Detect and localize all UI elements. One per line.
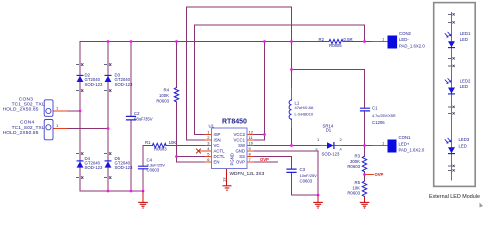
wire D1 pin leads: [320, 145, 341, 147]
svg-text:C0603: C0603: [300, 179, 313, 184]
svg-text:VCC2: VCC2: [234, 132, 246, 137]
wire CON3 net: [68, 110, 80, 112]
svg-text:R4: R4: [164, 88, 170, 93]
svg-text:PAD_1.6X2.0: PAD_1.6X2.0: [399, 44, 425, 49]
wire CON1 pin stub: [372, 145, 388, 147]
svg-text:4.7u/25V/X5R: 4.7u/25V/X5R: [372, 114, 396, 118]
wire SS to C3: [254, 157, 319, 196]
svg-text:C1206: C1206: [372, 120, 385, 125]
wire L1 pin leads: [291, 88, 293, 128]
svg-text:SOD-123: SOD-123: [115, 82, 134, 87]
svg-text:R5: R5: [355, 180, 361, 185]
wire CON2 pin stub: [372, 41, 388, 43]
wire LED module string: [451, 13, 453, 181]
wire VC compensation net (R1/C4): [143, 146, 205, 192]
wire VCC2/VCC1 supply: [254, 42, 265, 141]
pin marks D5: [104, 152, 111, 154]
svg-text:R0603: R0603: [156, 99, 169, 104]
wire CON4 pin: [53, 128, 68, 130]
LED2: [445, 78, 455, 94]
LED1: [445, 32, 455, 48]
svg-text:SS: SS: [239, 154, 245, 159]
LED3: [445, 138, 455, 154]
wire L1 column bottom: [291, 128, 293, 146]
resistor R4 body: [174, 88, 178, 103]
svg-text:C3: C3: [300, 167, 306, 172]
svg-text:L-SH8D10: L-SH8D10: [295, 112, 314, 117]
svg-text:HOLD_2X50.85: HOLD_2X50.85: [3, 130, 39, 136]
wire SW output row: [254, 145, 373, 147]
ground at R5: [360, 197, 370, 209]
svg-text:TC1_S02_TXL: TC1_S02_TXL: [12, 125, 45, 131]
resistor R2 body: [329, 39, 343, 43]
ground at C4: [138, 191, 148, 208]
svg-text:10: 10: [249, 141, 254, 146]
svg-text:LED2: LED2: [460, 79, 471, 84]
svg-text:10K: 10K: [169, 140, 177, 145]
connector CON3 symbol: [44, 100, 53, 117]
wire ISP sense loop: [195, 25, 365, 135]
ground at IC pin13: [223, 186, 232, 190]
inductor L1 coil: [289, 100, 291, 119]
diode D1: [327, 142, 334, 149]
svg-text:R0603: R0603: [347, 191, 360, 196]
svg-text:C0603: C0603: [147, 168, 160, 173]
svg-text:LED: LED: [460, 84, 468, 89]
IC right pin stubs: [247, 135, 254, 163]
svg-text:PAD_1.6X2.0: PAD_1.6X2.0: [399, 148, 425, 153]
svg-text:68uF/35V: 68uF/35V: [134, 117, 153, 122]
svg-text:R0603: R0603: [154, 147, 167, 152]
svg-text:ACTL: ACTL: [214, 149, 226, 154]
connector CON4 symbol: [44, 120, 53, 140]
svg-text:47uH/0.8A: 47uH/0.8A: [295, 105, 314, 110]
wire OVP divider column: [364, 146, 366, 182]
svg-text:LED: LED: [459, 144, 467, 149]
svg-text:External LED Module: External LED Module: [429, 194, 480, 200]
svg-text:10K: 10K: [352, 185, 360, 190]
wire C1 branch: [292, 70, 365, 146]
svg-text:12: 12: [249, 130, 254, 135]
svg-text:R3: R3: [355, 154, 361, 159]
wire input column 1 (D2/D4): [79, 42, 81, 192]
svg-text:LED3: LED3: [459, 137, 470, 142]
wire GND pin9: [254, 151, 319, 195]
wire CON4 net: [68, 128, 108, 130]
svg-text:CON1: CON1: [399, 135, 412, 140]
capacitor C2 plates: [127, 116, 136, 120]
wire CON3 pin: [53, 110, 68, 112]
op IC U1 RT8450 body: [212, 128, 248, 169]
pin marks D3: [104, 63, 111, 65]
svg-text:13: 13: [222, 177, 227, 182]
wire VIN top rail: [80, 41, 372, 43]
svg-text:CON2: CON2: [399, 31, 412, 36]
wire IC pin13 ground: [226, 169, 228, 186]
pin marks LED string: [448, 13, 455, 15]
svg-text:GND: GND: [235, 149, 245, 154]
wire OVP net alias stub: [365, 174, 374, 176]
connector CON1 pad: [388, 140, 397, 153]
svg-text:0.5R: 0.5R: [344, 37, 353, 42]
diode D3: [105, 75, 112, 82]
svg-text:R0805: R0805: [329, 43, 342, 48]
svg-text:RT8450: RT8450: [222, 119, 247, 126]
svg-text:DCTL: DCTL: [214, 154, 226, 159]
svg-text:LED+: LED+: [399, 141, 410, 146]
svg-text:CON4: CON4: [20, 120, 35, 126]
resistor R3 body: [362, 156, 366, 172]
mouse cursor mark: [480, 203, 484, 208]
wire input column 2 (D3/D5): [107, 42, 109, 192]
svg-text:U1: U1: [209, 123, 215, 128]
svg-text:R2: R2: [319, 37, 325, 42]
diode D5: [105, 161, 112, 168]
svg-text:ISN: ISN: [214, 138, 221, 143]
svg-text:ISP: ISP: [214, 132, 221, 137]
wire R4 branch to DCTL/EN: [177, 42, 206, 163]
ground at C3: [313, 195, 323, 208]
svg-text:OVP: OVP: [260, 157, 269, 162]
pin marks D2: [76, 63, 83, 65]
svg-text:C1: C1: [372, 106, 378, 111]
svg-text:OVP: OVP: [236, 160, 245, 165]
diode D4: [77, 161, 84, 168]
resistor R5 body: [362, 181, 366, 196]
capacitor C3 plates: [287, 169, 296, 172]
wire bottom ground rail: [80, 190, 143, 192]
wire ISN sense loop: [187, 7, 292, 140]
svg-text:SOD-123: SOD-123: [322, 151, 341, 156]
svg-text:WDFN_12L 3X3: WDFN_12L 3X3: [230, 171, 265, 177]
svg-text:10nF/25V: 10nF/25V: [300, 173, 318, 178]
connector CON2 pad: [388, 36, 398, 49]
svg-text:300K: 300K: [350, 159, 360, 164]
wire C2 column: [130, 42, 132, 192]
no-connect X on pin 4 ACTL: [197, 149, 201, 153]
svg-text:SOD-123: SOD-123: [115, 165, 134, 170]
svg-text:HOLD_2X50.85: HOLD_2X50.85: [3, 106, 39, 112]
pin marks D4: [76, 152, 83, 154]
diode D2: [77, 75, 84, 82]
IC left pin stubs: [199, 135, 212, 163]
svg-text:R0603: R0603: [347, 164, 360, 169]
svg-text:D1: D1: [326, 128, 332, 133]
svg-text:LED-: LED-: [399, 37, 409, 42]
svg-text:LED1: LED1: [460, 31, 471, 36]
svg-text:PGND: PGND: [230, 153, 235, 165]
svg-text:EN: EN: [214, 160, 220, 165]
wire OVP pin7 stub: [254, 161, 278, 163]
capacitor C4 plates: [139, 166, 148, 169]
wire L1 column top: [291, 42, 293, 89]
svg-text:OVP: OVP: [375, 172, 384, 177]
svg-text:VC: VC: [214, 143, 220, 148]
svg-text:LED: LED: [460, 37, 468, 42]
svg-text:SOD-123: SOD-123: [85, 82, 104, 87]
svg-text:SW: SW: [238, 143, 246, 148]
svg-text:100K: 100K: [159, 93, 169, 98]
svg-text:SOD-123: SOD-123: [85, 165, 104, 170]
External LED Module box: [434, 3, 476, 187]
resistor R1 body: [153, 143, 167, 147]
svg-text:C2: C2: [134, 111, 140, 116]
capacitor C1 plates: [361, 108, 370, 111]
svg-text:VCC1: VCC1: [234, 138, 246, 143]
svg-text:R1: R1: [145, 140, 151, 145]
